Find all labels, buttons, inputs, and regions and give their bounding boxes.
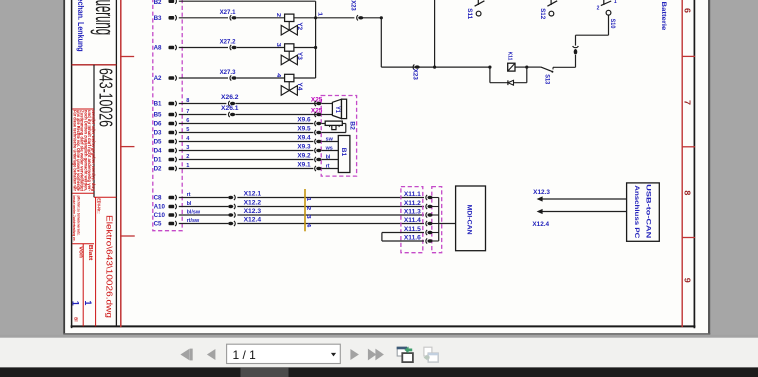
svg-text:- Batterie: - Batterie [660, 0, 667, 31]
connector X9.6 [297, 117, 321, 126]
connector X9.2 [297, 153, 321, 162]
MDI-CAN unit [456, 186, 486, 251]
junction rail/diode branch [525, 66, 528, 69]
svg-text:wendet oder weitergegeben werd: wendet oder weitergegeben werden. dwg [91, 109, 96, 191]
svg-text:sw: sw [326, 136, 334, 142]
svg-text:8: 8 [683, 190, 693, 195]
svg-text:S12: S12 [539, 8, 546, 20]
left zone tick 6/7 [121, 56, 134, 58]
connector X27.1 [220, 9, 237, 20]
pin A10 [154, 201, 192, 211]
pin D2 [154, 163, 190, 173]
svg-text:B1: B1 [340, 148, 347, 157]
svg-text:ws: ws [325, 145, 333, 151]
wire A2 to X27.3 [179, 77, 228, 79]
svg-text:Blatt: Blatt [87, 245, 93, 261]
connector pin X11.4 [404, 217, 439, 226]
pin B1 [154, 98, 190, 108]
right zone tick 6/7 [682, 55, 694, 57]
relay rail wire [381, 66, 490, 68]
legal notice continuation text [72, 196, 81, 242]
svg-text:rt: rt [326, 163, 330, 169]
connector pin X11.2 [404, 200, 439, 209]
inline connector on S10 drop [573, 46, 579, 55]
wire X26.2 to X25 [235, 103, 317, 105]
page bottom edge shadow [63, 333, 710, 335]
frame bottom black border [72, 325, 695, 327]
svg-text:X9.3: X9.3 [297, 144, 311, 151]
right zone tick 8/9 [682, 237, 694, 239]
svg-text:Y4: Y4 [296, 82, 303, 91]
wire D1 to X9.2 [179, 159, 314, 161]
wire X12.1 to X11 [237, 197, 424, 199]
wire X9.6 to buzzer B2 [322, 123, 326, 125]
EDV cell left red vline [95, 197, 97, 326]
svg-text:X12.4: X12.4 [532, 221, 549, 228]
junction rail/top wire [433, 66, 436, 69]
switch S13 [541, 67, 554, 73]
valve common bus wire [315, 1, 317, 78]
title block divider vline [115, 0, 117, 326]
svg-text:USB-to-CAN: USB-to-CAN [645, 184, 652, 239]
title block red notice box top line [72, 108, 94, 110]
wire X27.2 to valve Y3 [237, 47, 285, 49]
connector X9.1 [297, 162, 321, 171]
svg-text:C5: C5 [154, 221, 162, 228]
wire D6 to X9.6 [179, 123, 314, 125]
wire X27.3 to valve Y4 [237, 77, 285, 79]
frame left red zone line [120, 0, 122, 326]
svg-text:A2: A2 [154, 75, 162, 82]
solenoid valve Y3 [275, 43, 298, 65]
buzzer B2 [325, 121, 342, 130]
wire X9.4 to B1 (sw) [322, 136, 339, 142]
white schematic page [64, 0, 708, 333]
wire S10 contact down [608, 15, 610, 35]
svg-text:X9.1: X9.1 [297, 162, 311, 169]
pin A8 [154, 45, 177, 52]
connector X12.2 [228, 200, 262, 210]
pin D4 [154, 145, 190, 155]
svg-text:4: 4 [275, 73, 281, 77]
svg-text:2: 2 [275, 13, 281, 17]
svg-text:von: von [77, 246, 83, 258]
toolbar next-view button (disabled) [424, 347, 439, 362]
svg-text:EDV-Nr.:: EDV-Nr.: [96, 198, 101, 214]
frame right red zone line [681, 0, 683, 326]
connector X11 dashed outline (labels) [401, 187, 423, 253]
svg-text:Anschluss PC: Anschluss PC [633, 185, 640, 238]
connector X9.3 [297, 144, 321, 153]
wire arrow to X12.4 [532, 209, 626, 228]
svg-text:X11.3: X11.3 [404, 209, 421, 216]
wire X11 to MDI-CAN [439, 223, 456, 225]
switch S10 [597, 0, 617, 15]
svg-text:C10: C10 [154, 212, 166, 219]
frame right black border [693, 0, 695, 327]
junction bus/A8 [314, 46, 317, 49]
S10 drop wire lower [575, 55, 577, 67]
svg-text:X12.3: X12.3 [244, 208, 262, 215]
title block red divider under name cell [72, 64, 117, 66]
svg-text:A10: A10 [154, 204, 166, 211]
page right edge shadow [708, 0, 710, 334]
connector X12.3 [228, 208, 262, 218]
wire X12.2 to X11 [237, 206, 424, 208]
svg-text:6: 6 [682, 8, 692, 13]
svg-text:X12.4: X12.4 [244, 217, 262, 224]
svg-text:X11.1: X11.1 [404, 191, 421, 198]
wire A10 to X12.2 [179, 206, 228, 208]
wire to switch S13 [527, 66, 541, 68]
svg-text:X27.2: X27.2 [220, 39, 236, 46]
svg-text:X9.2: X9.2 [297, 153, 311, 160]
wire X26.1 to X25 [235, 114, 317, 116]
left zone tick 8/9 [121, 235, 134, 237]
wire valve Y2 to bus [294, 17, 316, 19]
svg-text:B2: B2 [154, 0, 162, 6]
USB-to-CAN unit [627, 183, 660, 241]
connector X12.4 [228, 217, 262, 227]
svg-text:B3: B3 [154, 15, 162, 22]
junction wire1 corner [380, 16, 383, 19]
svg-text:X12.3: X12.3 [533, 189, 550, 196]
connector X9.5 [297, 126, 321, 135]
connector X26.2 [221, 94, 239, 106]
svg-text:C8: C8 [154, 195, 162, 202]
title text Steuerung (partially scrolled off) [90, 0, 119, 35]
X11 pin bus wire [438, 198, 440, 242]
svg-text:Mechan. Lenkung: Mechan. Lenkung [76, 0, 86, 52]
connector X25 [311, 108, 323, 117]
pin D5 [154, 136, 191, 146]
wire D4 to X9.3 [179, 150, 314, 152]
svg-text:B5: B5 [154, 112, 162, 119]
svg-text:A8: A8 [154, 45, 162, 52]
svg-text:bl: bl [326, 154, 331, 160]
toolbar background [0, 338, 758, 368]
wire 1 bus to X23 [316, 17, 355, 19]
von/Blatt cell divider [82, 244, 84, 327]
svg-text:X9.5: X9.5 [297, 126, 311, 133]
pin A2 [154, 75, 177, 82]
title block cell divider vline [93, 65, 95, 198]
junction rail/K11 branch [488, 66, 491, 69]
toolbar previous-page button [207, 349, 216, 360]
pin B5 [154, 109, 190, 119]
pin C10 [154, 210, 201, 220]
wire X12.4 to X11 [237, 223, 424, 225]
wire X23 to junction [363, 17, 381, 19]
solenoid valve Y4 [275, 73, 298, 95]
wire S13 to S10 drop [553, 66, 576, 68]
svg-text:1: 1 [614, 0, 617, 5]
connector block dashed outline [153, 0, 182, 231]
pin C8 [154, 192, 191, 202]
gray gap below page [0, 335, 758, 338]
wire C8 to X12.1 [179, 197, 228, 199]
wire X27.1 to valve Y2 [237, 17, 285, 19]
svg-text:D4: D4 [154, 148, 162, 155]
svg-text:643-10026: 643-10026 [95, 68, 115, 127]
wire D5 to X9.4 [179, 141, 314, 143]
pin D6 [154, 118, 190, 128]
svg-text:Bl: Bl [73, 317, 78, 321]
svg-text:7: 7 [682, 100, 692, 105]
wire C5 to X12.4 [179, 223, 228, 225]
svg-text:3: 3 [275, 43, 281, 47]
svg-text:B2: B2 [348, 121, 355, 130]
wire B5 to X26.1 [179, 114, 227, 116]
switch S12 [547, 0, 557, 16]
red divider above von/Blatt row [72, 243, 94, 245]
svg-text:Y3: Y3 [296, 52, 303, 61]
wire X25 to horn [322, 103, 333, 105]
suppressor diode [508, 80, 514, 85]
svg-text:D2: D2 [154, 166, 162, 173]
connector pin X11.3 [404, 209, 439, 218]
svg-text:X9.4: X9.4 [297, 135, 311, 142]
relay coil K11 [507, 52, 516, 72]
wire B1 to X26.2 [179, 103, 227, 105]
connector pin X11.5 [404, 226, 439, 235]
diode bypass branch wires [490, 67, 527, 83]
wire D3 to X9.5 [179, 132, 314, 134]
S10 drop wire upper [575, 35, 577, 45]
wire arrow to X12.3 [533, 189, 626, 202]
horn Y1 [332, 99, 346, 118]
svg-text:Y2: Y2 [296, 22, 303, 31]
page number combo box [227, 344, 341, 363]
wire A8 to X27.2 [179, 47, 228, 49]
connector X9.4 [297, 135, 321, 144]
svg-text:K11: K11 [507, 52, 513, 61]
wire buzzer right loop [342, 124, 346, 133]
legal notice red mini text block [72, 109, 96, 192]
svg-text:D6: D6 [154, 121, 162, 128]
svg-text:X23: X23 [412, 69, 419, 81]
svg-text:1: 1 [83, 300, 93, 305]
connector X23 (rail) [412, 65, 420, 81]
wire D2 to X9.1 [179, 168, 314, 170]
svg-text:X12.1: X12.1 [244, 191, 262, 198]
connector X25 [311, 97, 323, 106]
wire X9.1 to B1 (rt) [322, 163, 339, 169]
connector X11 dashed outline (pins) [432, 187, 442, 253]
svg-text:X11.4: X11.4 [404, 217, 421, 224]
connector X23 (top) [349, 0, 363, 20]
wire X9.5 under buzzer [322, 132, 346, 134]
svg-text:X23: X23 [349, 0, 356, 11]
svg-text:X26.1: X26.1 [221, 105, 239, 112]
wire X12.3 to X11 [237, 214, 424, 216]
wire valve Y4 to bus [294, 77, 316, 79]
wire B2 to valve bus [179, 0, 316, 2]
svg-text:X26.2: X26.2 [221, 94, 239, 101]
svg-text:1: 1 [71, 301, 81, 306]
svg-text:9: 9 [682, 278, 692, 283]
wire B3 to X27.1 [179, 17, 228, 19]
svg-text:MDI-CAN: MDI-CAN [466, 205, 473, 235]
wire K11 to junction [515, 66, 527, 68]
connector pin X11.6 [404, 235, 439, 244]
wire X9.2 to B1 (bl) [322, 154, 339, 160]
page left edge shadow [63, 0, 65, 334]
left zone tick 7/8 [121, 146, 134, 148]
taskbar [0, 367, 758, 377]
connector X27.2 [220, 39, 237, 50]
svg-text:X27.1: X27.1 [220, 9, 236, 16]
pin D3 [154, 127, 190, 137]
right zone tick 7/8 [682, 146, 694, 148]
wire X25 to horn [322, 114, 333, 116]
toolbar first-page button [180, 349, 192, 361]
svg-text:B1: B1 [154, 101, 162, 108]
svg-text:1: 1 [316, 12, 322, 16]
svg-text:S13: S13 [543, 74, 550, 85]
pin B2 [154, 0, 177, 6]
toolbar next-page button [350, 349, 359, 360]
svg-text:S10: S10 [609, 19, 616, 29]
svg-text:Y1: Y1 [334, 106, 341, 114]
toolbar previous-view button [397, 347, 413, 363]
connector X27.3 [220, 69, 237, 80]
taskbar active segment [241, 367, 289, 377]
wire X9.3 to B1 (ws) [322, 145, 339, 151]
pin D1 [154, 154, 190, 164]
pin C5 [154, 218, 200, 228]
svg-text:X9.6: X9.6 [297, 117, 311, 124]
wire C10 to X12.3 [179, 214, 228, 216]
svg-text:Steuerung: Steuerung [90, 0, 119, 35]
connector X12.1 [228, 191, 262, 201]
solenoid valve Y2 [275, 13, 298, 35]
X11.5/X11.6 jumper wire [382, 233, 424, 242]
toolbar last-page button [368, 349, 384, 361]
connector pin X11.1 [404, 191, 439, 200]
svg-text:S11: S11 [466, 8, 473, 20]
svg-text:X11.2: X11.2 [404, 200, 421, 207]
svg-text:2: 2 [597, 5, 600, 11]
svg-text:X12.2: X12.2 [244, 200, 262, 207]
svg-text:1 / 1: 1 / 1 [233, 348, 257, 362]
svg-text:D5: D5 [154, 139, 162, 146]
sensor box B1 [338, 136, 350, 173]
connector X26.1 [221, 105, 239, 117]
svg-text:D3: D3 [154, 130, 162, 137]
wire from top into rail [434, 0, 436, 67]
red divider under notice [72, 192, 94, 194]
wire under S10 [576, 34, 609, 36]
horn unit dashed outline [321, 96, 356, 177]
svg-text:pflichtet zu Schadenersatz.: pflichtet zu Schadenersatz. [76, 196, 81, 236]
svg-text:Elektro\643\10026.dwg: Elektro\643\10026.dwg [104, 215, 114, 318]
frame left black border [71, 0, 73, 327]
junction bus/B3 [314, 16, 317, 19]
pin B3 [154, 15, 177, 22]
switch S11 [475, 0, 485, 16]
svg-text:D1: D1 [154, 157, 162, 164]
wire down to relay rail [380, 18, 382, 67]
wire valve Y3 to bus [294, 47, 316, 49]
cable marker line [304, 189, 306, 231]
svg-text:X27.3: X27.3 [220, 69, 236, 76]
EDV cell top line [94, 196, 116, 198]
